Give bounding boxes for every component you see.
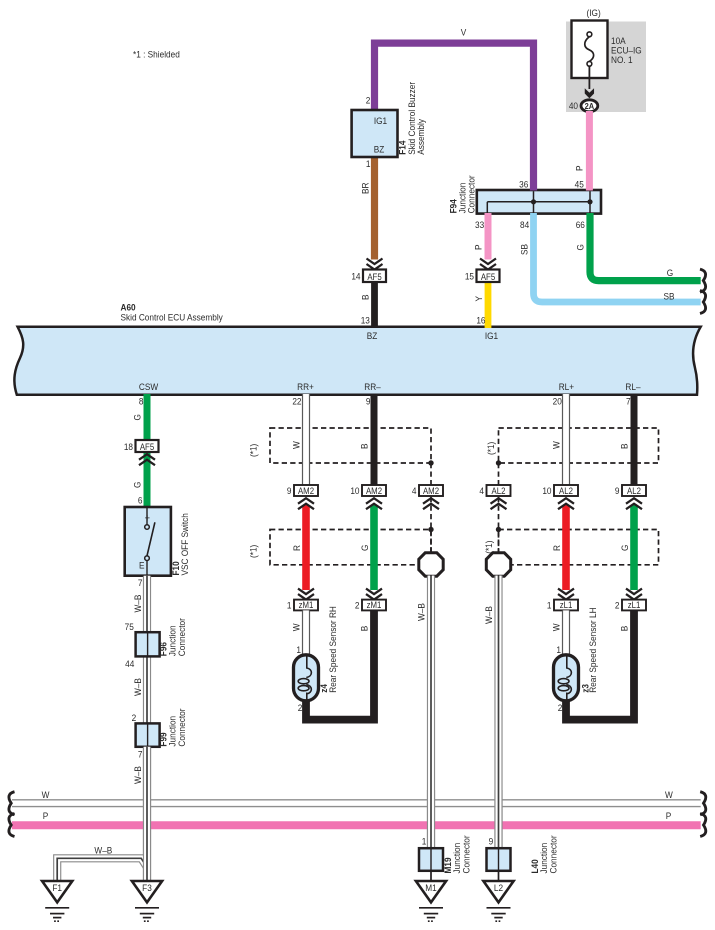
svg-text:36: 36 — [519, 179, 528, 190]
svg-text:BZ: BZ — [374, 144, 385, 155]
svg-text:G: G — [132, 482, 143, 488]
svg-text:AF5: AF5 — [140, 441, 155, 452]
svg-text:AL2: AL2 — [627, 485, 641, 496]
svg-text:AL2: AL2 — [559, 485, 573, 496]
svg-text:W: W — [291, 623, 302, 631]
wire W: 1 zL1 to sensor z3 — [562, 610, 570, 655]
svg-text:Rear Speed Sensor LH: Rear Speed Sensor LH — [588, 607, 599, 692]
svg-text:9: 9 — [615, 485, 620, 496]
wire B black: AF5 to ECU pin 13 — [371, 282, 378, 329]
speed sensor z4 body — [294, 655, 319, 701]
wire W horizontal band — [12, 799, 701, 801]
svg-text:P: P — [43, 810, 49, 821]
skid control buzzer F14 box — [352, 110, 398, 157]
svg-text:RR+: RR+ — [297, 381, 314, 392]
svg-text:W: W — [665, 789, 673, 800]
junction dot RR shield lower — [428, 527, 433, 532]
svg-text:7: 7 — [626, 396, 631, 407]
F94 internal bus — [487, 201, 590, 203]
svg-text:Rear Speed Sensor RH: Rear Speed Sensor RH — [328, 606, 339, 693]
svg-text:16: 16 — [476, 315, 485, 326]
svg-text:+: + — [145, 513, 151, 525]
junction dot RL shield upper — [496, 460, 501, 465]
svg-text:Skid Control ECU Assembly: Skid Control ECU Assembly — [121, 312, 224, 323]
svg-text:7: 7 — [138, 577, 143, 588]
svg-text:R: R — [291, 545, 302, 551]
svg-text:10: 10 — [542, 485, 551, 496]
svg-text:IG1: IG1 — [485, 330, 498, 341]
junction connector F94 box — [477, 190, 601, 214]
svg-text:Y: Y — [473, 296, 484, 302]
svg-text:R: R — [551, 545, 562, 551]
svg-text:8: 8 — [139, 396, 144, 407]
wire W-B shield drain RL to L40 — [494, 576, 502, 850]
svg-text:IG1: IG1 — [374, 115, 387, 126]
svg-text:(IG): (IG) — [586, 7, 600, 18]
svg-text:W–B: W–B — [132, 766, 143, 784]
svg-text:14: 14 — [351, 271, 360, 282]
svg-text:2: 2 — [615, 600, 620, 611]
svg-text:W: W — [291, 441, 302, 449]
connector 18 AF5 — [136, 440, 159, 452]
wire P pink: fuse 2A to F94 pin 45 — [586, 111, 593, 191]
svg-text:*1 : Shielded: *1 : Shielded — [133, 49, 180, 60]
svg-text:P: P — [666, 810, 672, 821]
svg-text:10: 10 — [350, 485, 359, 496]
connector 15 AF5 — [480, 259, 496, 265]
junction dot RR shield upper — [428, 460, 433, 465]
svg-text:W: W — [551, 623, 562, 631]
wire SB: F94 pin 84 to right edge — [534, 213, 701, 302]
wire M19 to ground M1 — [430, 871, 432, 881]
svg-text:G: G — [575, 244, 586, 250]
svg-text:L2: L2 — [494, 882, 503, 893]
wire V purple: buzzer to junction F94 pin 36 — [375, 43, 534, 190]
svg-text:22: 22 — [292, 396, 301, 407]
svg-text:P: P — [473, 244, 484, 250]
shield dashed box RL upper (*1) — [499, 428, 659, 463]
shield dashed box RR lower (*1) — [270, 530, 431, 565]
svg-text:BZ: BZ — [367, 330, 378, 341]
svg-text:VSC OFF Switch: VSC OFF Switch — [180, 513, 191, 575]
svg-text:Connector: Connector — [548, 835, 559, 873]
svg-text:B: B — [360, 294, 371, 300]
svg-text:AM2: AM2 — [298, 485, 314, 496]
svg-text:1: 1 — [422, 836, 427, 847]
wire W RL+ : ECU pin 20 to 10 AL2 — [562, 394, 570, 486]
arrow into terminal 40 — [585, 88, 594, 98]
svg-text:G: G — [667, 268, 673, 279]
shield drain dashed wire RL — [498, 463, 500, 553]
svg-text:BR: BR — [360, 182, 371, 194]
svg-text:B: B — [619, 443, 630, 449]
svg-text:zM1: zM1 — [299, 600, 314, 611]
junction connector F99 — [136, 723, 160, 746]
octagon shield terminal RL — [486, 553, 510, 576]
fuse 10A ECU-IG NO.1 — [572, 21, 608, 79]
VSC OFF switch F10 box — [125, 507, 171, 576]
svg-text:Assembly: Assembly — [415, 119, 426, 155]
junction dot RL shield lower — [496, 527, 501, 532]
break symbol G right — [700, 269, 706, 292]
svg-text:9: 9 — [287, 485, 292, 496]
svg-text:15: 15 — [465, 271, 474, 282]
svg-text:NO. 1: NO. 1 — [611, 54, 633, 65]
svg-text:F3: F3 — [142, 882, 152, 893]
svg-text:W–B: W–B — [416, 603, 427, 621]
ground F3 — [132, 881, 162, 902]
speed sensor z3 body — [554, 655, 579, 701]
svg-text:2: 2 — [366, 95, 371, 106]
connector 14 AF5 — [367, 259, 383, 265]
svg-text:G: G — [359, 545, 370, 551]
svg-text:45: 45 — [575, 179, 584, 190]
svg-text:RL+: RL+ — [559, 381, 574, 392]
svg-text:G: G — [619, 545, 630, 551]
svg-text:(*1): (*1) — [485, 442, 496, 455]
svg-text:44: 44 — [125, 658, 134, 669]
svg-text:P: P — [574, 165, 585, 171]
svg-text:W–B: W–B — [132, 678, 143, 696]
svg-text:66: 66 — [576, 219, 585, 230]
wire W-B: VSC switch to ground F3 chain — [143, 576, 151, 881]
svg-text:1: 1 — [556, 644, 561, 655]
ground F1 — [42, 881, 72, 902]
svg-text:7: 7 — [138, 749, 143, 760]
wire R red: 9 AM2 to 1 zM1 — [302, 505, 310, 590]
svg-text:SB: SB — [663, 291, 674, 302]
svg-text:13: 13 — [361, 315, 370, 326]
wire W-B RL drain over bands — [494, 790, 502, 849]
svg-text:(*1): (*1) — [248, 444, 259, 457]
ground M1 — [416, 881, 446, 902]
svg-text:2A: 2A — [585, 101, 595, 111]
wire Y yellow: AF5 to ECU pin 16 — [485, 282, 492, 329]
svg-text:4: 4 — [479, 485, 484, 496]
svg-text:4: 4 — [412, 485, 417, 496]
svg-text:B: B — [359, 626, 370, 632]
wire W-B shield drain RR to M19 — [427, 576, 435, 850]
junction dot F94 pin36-84 — [531, 199, 536, 204]
wire B: sensor z4 to 2 zM1 — [306, 610, 374, 719]
svg-text:V: V — [461, 27, 467, 38]
svg-text:W–B: W–B — [132, 595, 143, 613]
octagon shield terminal RR — [419, 553, 443, 576]
svg-text:2: 2 — [298, 702, 303, 713]
svg-text:1: 1 — [296, 644, 301, 655]
svg-text:W: W — [42, 789, 50, 800]
wire G green CSW: ECU pin 8 to VSC switch — [144, 394, 151, 506]
wire G green: 9 AL2 to 2 zL1 — [630, 505, 638, 590]
svg-text:Connector: Connector — [176, 618, 187, 656]
svg-text:9: 9 — [489, 836, 494, 847]
svg-text:G: G — [132, 414, 143, 420]
svg-text:20: 20 — [553, 396, 562, 407]
junction connector F96 — [136, 632, 160, 656]
wire L40 to ground L2 — [498, 871, 500, 881]
svg-text:SB: SB — [519, 244, 530, 255]
svg-text:M1: M1 — [425, 882, 437, 893]
svg-text:33: 33 — [475, 219, 484, 230]
svg-text:RR–: RR– — [364, 381, 381, 392]
svg-text:(*1): (*1) — [248, 545, 259, 558]
svg-text:1: 1 — [547, 600, 552, 611]
svg-text:40: 40 — [569, 100, 578, 111]
svg-text:2: 2 — [355, 600, 360, 611]
svg-text:Connector: Connector — [176, 708, 187, 746]
wire R red: 10 AL2 to 1 zL1 — [562, 505, 570, 590]
shield dashed box RR upper (*1) — [270, 428, 431, 463]
svg-text:84: 84 — [520, 219, 529, 230]
wire W-B RR drain over bands — [427, 790, 435, 849]
connector row zM1 / zL1 — [298, 589, 314, 595]
wire BR brown: buzzer pin 1 to connector AF5 — [371, 157, 378, 260]
svg-text:18: 18 — [124, 441, 133, 452]
svg-text:B: B — [619, 626, 630, 632]
svg-text:zL1: zL1 — [560, 600, 573, 611]
break symbol SB right — [700, 291, 706, 314]
wire G green: 10 AM2 to 2 zM1 — [370, 505, 378, 590]
svg-text:B: B — [359, 443, 370, 449]
svg-text:AL2: AL2 — [492, 485, 506, 496]
svg-text:AF5: AF5 — [481, 271, 496, 282]
shield drain dashed wire RR — [430, 463, 432, 553]
wire B RR- : ECU pin 9 to 10 AM2 — [371, 394, 378, 486]
svg-text:AM2: AM2 — [423, 485, 439, 496]
svg-text:RL–: RL– — [625, 381, 640, 392]
svg-text:1: 1 — [287, 600, 292, 611]
ECU band A60 Skid Control ECU Assembly — [14, 327, 700, 395]
wire W-B branch to ground F1 — [57, 858, 147, 881]
break symbols W P bands — [9, 792, 15, 815]
wire B: sensor z3 to 2 zL1 — [566, 610, 634, 719]
wire W-B main drop to F3 over bands — [143, 747, 151, 881]
shield dashed box RL lower (*1) — [499, 530, 659, 565]
fuse block gray area — [566, 22, 646, 113]
svg-text:2: 2 — [558, 702, 563, 713]
svg-text:CSW: CSW — [139, 381, 159, 392]
wire B RL- : ECU pin 7 to 9 AL2 — [631, 394, 638, 486]
wire fuse to terminal 40 — [588, 66, 590, 89]
svg-text:Connector: Connector — [466, 175, 477, 213]
svg-text:9: 9 — [366, 396, 371, 407]
svg-text:E: E — [139, 560, 145, 571]
svg-text:Connector: Connector — [461, 835, 472, 873]
svg-text:6: 6 — [138, 495, 143, 506]
svg-text:W–B: W–B — [483, 606, 494, 624]
wire W: 1 zM1 to sensor z4 — [302, 610, 310, 655]
terminal 40 2A oval — [581, 100, 598, 112]
svg-text:AM2: AM2 — [366, 485, 382, 496]
svg-text:W: W — [551, 441, 562, 449]
wire G green: F94 pin 66 to right edge — [590, 213, 701, 281]
svg-text:75: 75 — [125, 621, 134, 632]
svg-text:AF5: AF5 — [367, 271, 382, 282]
svg-text:W–B: W–B — [94, 845, 112, 856]
wire P pink: F94 pin 33 to connector AF5 — [485, 213, 492, 260]
junction dot F94 pin45-66 — [587, 199, 592, 204]
wire P horizontal band — [12, 821, 701, 829]
svg-text:1: 1 — [366, 158, 371, 169]
svg-text:zL1: zL1 — [628, 600, 641, 611]
svg-text:zM1: zM1 — [367, 600, 382, 611]
svg-text:2: 2 — [132, 712, 137, 723]
connector row AM2 / AL2 — [294, 485, 318, 496]
svg-text:F1: F1 — [52, 882, 62, 893]
ground L2 — [483, 881, 513, 902]
wire W RR+ : ECU pin 22 to 9 AM2 — [302, 394, 310, 486]
